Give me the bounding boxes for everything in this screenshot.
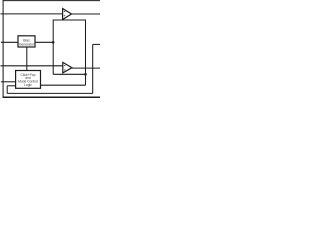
wire under amp2 horizontal <box>53 73 85 75</box>
border bottom <box>3 96 100 98</box>
wire IN2 to amp2 <box>1 65 63 67</box>
node B junction feedback <box>84 73 87 76</box>
svg-text:Logic: Logic <box>24 83 32 87</box>
wire logic left feedback vertical <box>6 86 8 94</box>
wire logic left input from border <box>1 81 16 83</box>
wire bottom feedback horizontal <box>7 92 93 94</box>
border left <box>2 0 4 97</box>
op-amp U1 <box>63 9 72 20</box>
box click-pop mode control logic <box>16 71 41 89</box>
wire OUT1 from amp1 tip to right edge <box>72 13 101 15</box>
svg-text:Generator: Generator <box>19 42 35 46</box>
op-amp U2 <box>63 62 72 73</box>
box bias generator <box>18 36 35 47</box>
wire right pin <box>93 43 100 45</box>
node A junction bias <box>52 41 55 44</box>
wire vertical right feedback <box>85 20 87 86</box>
wire right vertical <box>92 44 94 93</box>
op-amp U2 input marks <box>64 65 65 70</box>
wire logic right to feedback node <box>41 84 86 86</box>
wire bias to logic vertical <box>26 47 28 71</box>
wire under amp1 horizontal <box>53 19 85 21</box>
wire vertical mid-left node <box>52 20 54 75</box>
wire IN1 to amp1 <box>0 13 62 15</box>
wire bias input from left border <box>1 41 18 43</box>
wire OUT2 from amp2 tip to right edge <box>72 67 100 69</box>
wire logic left feedback horizontal <box>7 85 15 87</box>
border top <box>3 0 100 2</box>
wire bias output to node <box>35 41 53 43</box>
op-amp U1 input marks <box>64 11 65 16</box>
